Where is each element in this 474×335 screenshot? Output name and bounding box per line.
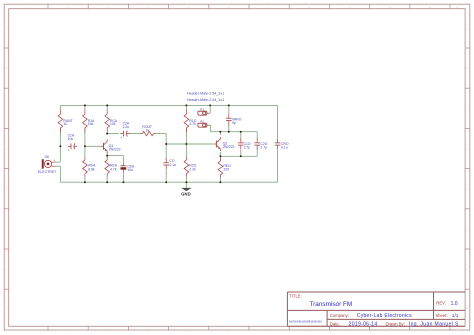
wire right rail lower bbox=[277, 150, 279, 183]
resistor R2O 2.2k bbox=[184, 156, 197, 176]
svg-text:4.7k: 4.7k bbox=[189, 122, 196, 126]
junction dot bbox=[106, 155, 108, 157]
svg-text:G6: G6 bbox=[45, 155, 50, 159]
capacitor CO 0.1u bbox=[163, 158, 176, 169]
junction dot bbox=[185, 143, 187, 145]
svg-text:ELECTRET: ELECTRET bbox=[38, 170, 57, 174]
svg-text:H: H bbox=[466, 306, 468, 310]
wire Q1 emitter node to CEA bbox=[107, 155, 123, 157]
svg-text:D: D bbox=[466, 147, 468, 151]
svg-text:D: D bbox=[6, 147, 8, 151]
transistor Q2 2N2222 bbox=[213, 137, 234, 151]
junction dot bbox=[219, 131, 221, 133]
resistor RANT 1k bbox=[58, 110, 73, 133]
wire C1O bottom bbox=[240, 150, 242, 157]
svg-text:220: 220 bbox=[223, 167, 229, 171]
wire REA to bottom rail bbox=[106, 177, 108, 183]
svg-text:P1: P1 bbox=[200, 108, 204, 112]
wire CEA to bottom rail bbox=[122, 173, 124, 182]
wire corner down to signal node bbox=[165, 134, 167, 144]
junction dot bbox=[106, 181, 108, 183]
wire left rail C1A node to mic+ bbox=[59, 146, 61, 162]
svg-text:9p: 9p bbox=[232, 121, 236, 125]
wire mic- to bottom rail bbox=[59, 166, 61, 182]
svg-text:2N2222: 2N2222 bbox=[223, 145, 235, 149]
header P2 bbox=[198, 120, 209, 128]
wire ROUT to corner bbox=[156, 133, 167, 135]
wire R1A branch top bbox=[84, 105, 86, 109]
wire CO to bottom rail bbox=[165, 169, 167, 182]
svg-text:2N2222: 2N2222 bbox=[109, 148, 121, 152]
junction dot bbox=[228, 131, 230, 133]
capacitor VARO 9p bbox=[226, 113, 242, 125]
capacitor CRO 0.1u bbox=[275, 139, 289, 150]
wire CO branch bbox=[165, 144, 167, 160]
svg-text:+: + bbox=[120, 136, 122, 140]
wire R1O branch top bbox=[185, 105, 187, 109]
svg-text:+: + bbox=[53, 158, 55, 162]
junction dot bbox=[59, 145, 61, 147]
svg-text:G: G bbox=[466, 267, 468, 271]
resistor REO 220 bbox=[218, 157, 231, 177]
wire RDA to bottom rail bbox=[84, 177, 86, 183]
svg-text:0.1u: 0.1u bbox=[169, 163, 176, 167]
wire R2O to bottom rail bbox=[185, 177, 187, 183]
junction dot bbox=[84, 181, 86, 183]
resistor REA 4.7k bbox=[105, 156, 118, 177]
svg-text:E: E bbox=[6, 187, 8, 191]
svg-text:A: A bbox=[466, 26, 468, 30]
resistor R1A 15k bbox=[83, 110, 96, 133]
svg-text:Date:: Date: bbox=[330, 322, 340, 327]
resistor RDA 6.8k bbox=[83, 156, 96, 176]
resistor ROUT 1k bbox=[140, 125, 156, 136]
wire tank box right lower bbox=[256, 148, 258, 156]
capacitor C2A 2.2u bbox=[120, 122, 130, 140]
svg-text:1/1: 1/1 bbox=[452, 313, 459, 319]
junction dot bbox=[84, 104, 86, 106]
wire Q1 emitter to REA bbox=[106, 152, 108, 156]
svg-text:GND: GND bbox=[181, 191, 190, 196]
junction dot bbox=[240, 155, 242, 157]
svg-text:Sheet:: Sheet: bbox=[435, 313, 447, 318]
svg-text:2.7p: 2.7p bbox=[260, 146, 267, 150]
junction dot bbox=[185, 104, 187, 106]
junction dot bbox=[165, 181, 167, 183]
capacitor C2O 2.7p bbox=[254, 139, 267, 150]
wire Q2 collector bbox=[219, 132, 221, 135]
electret microphone G6 bbox=[38, 155, 61, 174]
transistor Q1 2N2222 bbox=[101, 139, 121, 153]
junction dot bbox=[209, 104, 211, 106]
junction dot bbox=[228, 104, 230, 106]
svg-text:2.7p: 2.7p bbox=[244, 146, 251, 150]
svg-text:6.8k: 6.8k bbox=[88, 167, 95, 171]
svg-text:2019-06-14: 2019-06-14 bbox=[349, 322, 378, 328]
wire GND stub bbox=[185, 182, 187, 188]
svg-text:2.2u: 2.2u bbox=[123, 125, 130, 129]
wire right rail upper bbox=[277, 105, 279, 138]
wire VARO top bbox=[228, 105, 230, 113]
wire tank box bottom bbox=[220, 155, 257, 157]
svg-text:C: C bbox=[6, 106, 8, 110]
svg-text:G: G bbox=[6, 267, 8, 271]
wire P1 to top rail bbox=[209, 105, 211, 113]
wire tank box top bbox=[220, 131, 257, 133]
wire bottom rail bbox=[60, 181, 277, 183]
wire P1 pin stub bbox=[209, 112, 210, 114]
svg-text:H: H bbox=[6, 306, 8, 310]
junction dot bbox=[106, 104, 108, 106]
junction dot bbox=[185, 181, 187, 183]
wire C1A node to Q1 base bbox=[85, 145, 101, 147]
svg-text:Ing. Juan Manuel S: Ing. Juan Manuel S bbox=[409, 322, 459, 328]
svg-text:Drawn By:: Drawn By: bbox=[386, 322, 405, 327]
wire R1O bottom to signal bbox=[185, 128, 187, 144]
svg-text:15k: 15k bbox=[88, 122, 94, 126]
svg-text:10u: 10u bbox=[127, 168, 133, 172]
resistor R1O 4.7k bbox=[184, 110, 197, 133]
capacitor C1O 2.7p bbox=[238, 139, 251, 150]
wire left rail segment above RANT bbox=[59, 105, 61, 109]
svg-text:4.7k: 4.7k bbox=[110, 167, 117, 171]
wire RCA branch top bbox=[106, 105, 108, 109]
junction dot bbox=[219, 181, 221, 183]
svg-text:0.1u: 0.1u bbox=[281, 146, 288, 150]
junction dot bbox=[219, 155, 221, 157]
svg-text:+: + bbox=[68, 149, 70, 153]
junction dot bbox=[122, 181, 124, 183]
capacitor C1A 10u bbox=[68, 133, 77, 152]
junction dot bbox=[106, 133, 108, 135]
svg-text:Header-Male-2.54_1x1: Header-Male-2.54_1x1 bbox=[187, 91, 224, 95]
capacitor CEA 10u bbox=[121, 163, 135, 173]
junction dot bbox=[165, 143, 167, 145]
svg-text:Cyber-Lab Electronics: Cyber-Lab Electronics bbox=[357, 313, 412, 319]
svg-text:1.0: 1.0 bbox=[451, 301, 458, 307]
wire top V+ rail bbox=[60, 104, 277, 106]
svg-text:10u: 10u bbox=[68, 137, 74, 141]
wire CEA vertical top bbox=[122, 156, 124, 163]
wire base node to RDA bbox=[84, 146, 86, 156]
wire tank box right upper bbox=[256, 132, 258, 140]
svg-text:1k: 1k bbox=[146, 128, 150, 132]
svg-text:E: E bbox=[466, 187, 468, 191]
svg-text:REV:: REV: bbox=[436, 301, 446, 306]
svg-text:1k: 1k bbox=[63, 122, 67, 126]
wire left rail RANT to C1A node bbox=[59, 128, 61, 146]
resistor RCA 10k bbox=[105, 110, 118, 133]
header P1 bbox=[198, 108, 209, 116]
svg-text:B: B bbox=[466, 66, 468, 70]
wire C1O top bbox=[240, 132, 242, 140]
svg-text:2.2k: 2.2k bbox=[189, 167, 196, 171]
wire REO to bottom rail bbox=[219, 177, 221, 183]
svg-text:10k: 10k bbox=[110, 122, 116, 126]
svg-text:Transmisor FM: Transmisor FM bbox=[310, 301, 353, 308]
junction dot bbox=[84, 145, 86, 147]
svg-text:P2: P2 bbox=[200, 120, 204, 124]
svg-text:A: A bbox=[6, 26, 8, 30]
wire C2A to ROUT bbox=[128, 133, 140, 135]
wire signal to R2O bbox=[185, 144, 187, 156]
svg-text:Company:: Company: bbox=[330, 313, 349, 318]
svg-text:C: C bbox=[466, 106, 468, 110]
wire signal node to Q2 base bbox=[166, 143, 213, 145]
wire R1A bottom to base node bbox=[84, 128, 86, 146]
wire P2 corner bbox=[209, 125, 220, 132]
ground bbox=[181, 188, 190, 196]
svg-text:TITLE:: TITLE: bbox=[289, 294, 302, 299]
junction dot bbox=[240, 131, 242, 133]
svg-text:Header-Male-2.54_1x1: Header-Male-2.54_1x1 bbox=[187, 98, 224, 102]
svg-text:CO: CO bbox=[169, 159, 174, 163]
wire Q2 emitter to REO node bbox=[219, 152, 221, 156]
wire VARO bottom bbox=[228, 124, 230, 131]
svg-text:www.tienda-cyberlab.electronic: www.tienda-cyberlab.electronics bbox=[289, 320, 323, 323]
wire Q1 collector node to C2A bbox=[107, 133, 119, 135]
svg-text:B: B bbox=[6, 66, 8, 70]
